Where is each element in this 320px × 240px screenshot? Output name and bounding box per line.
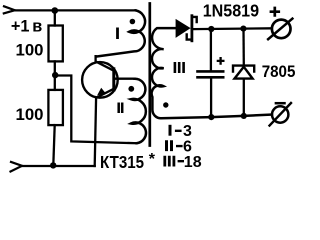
svg-text:КТ315: КТ315 <box>100 152 144 173</box>
svg-text:*: * <box>149 151 156 168</box>
svg-text:100: 100 <box>16 40 44 59</box>
svg-text:18: 18 <box>184 154 202 171</box>
svg-text:в: в <box>32 17 42 35</box>
svg-text:100: 100 <box>16 105 44 124</box>
svg-text:7805: 7805 <box>262 63 296 81</box>
svg-text:1N5819: 1N5819 <box>203 1 259 21</box>
svg-text:+1: +1 <box>11 17 30 35</box>
